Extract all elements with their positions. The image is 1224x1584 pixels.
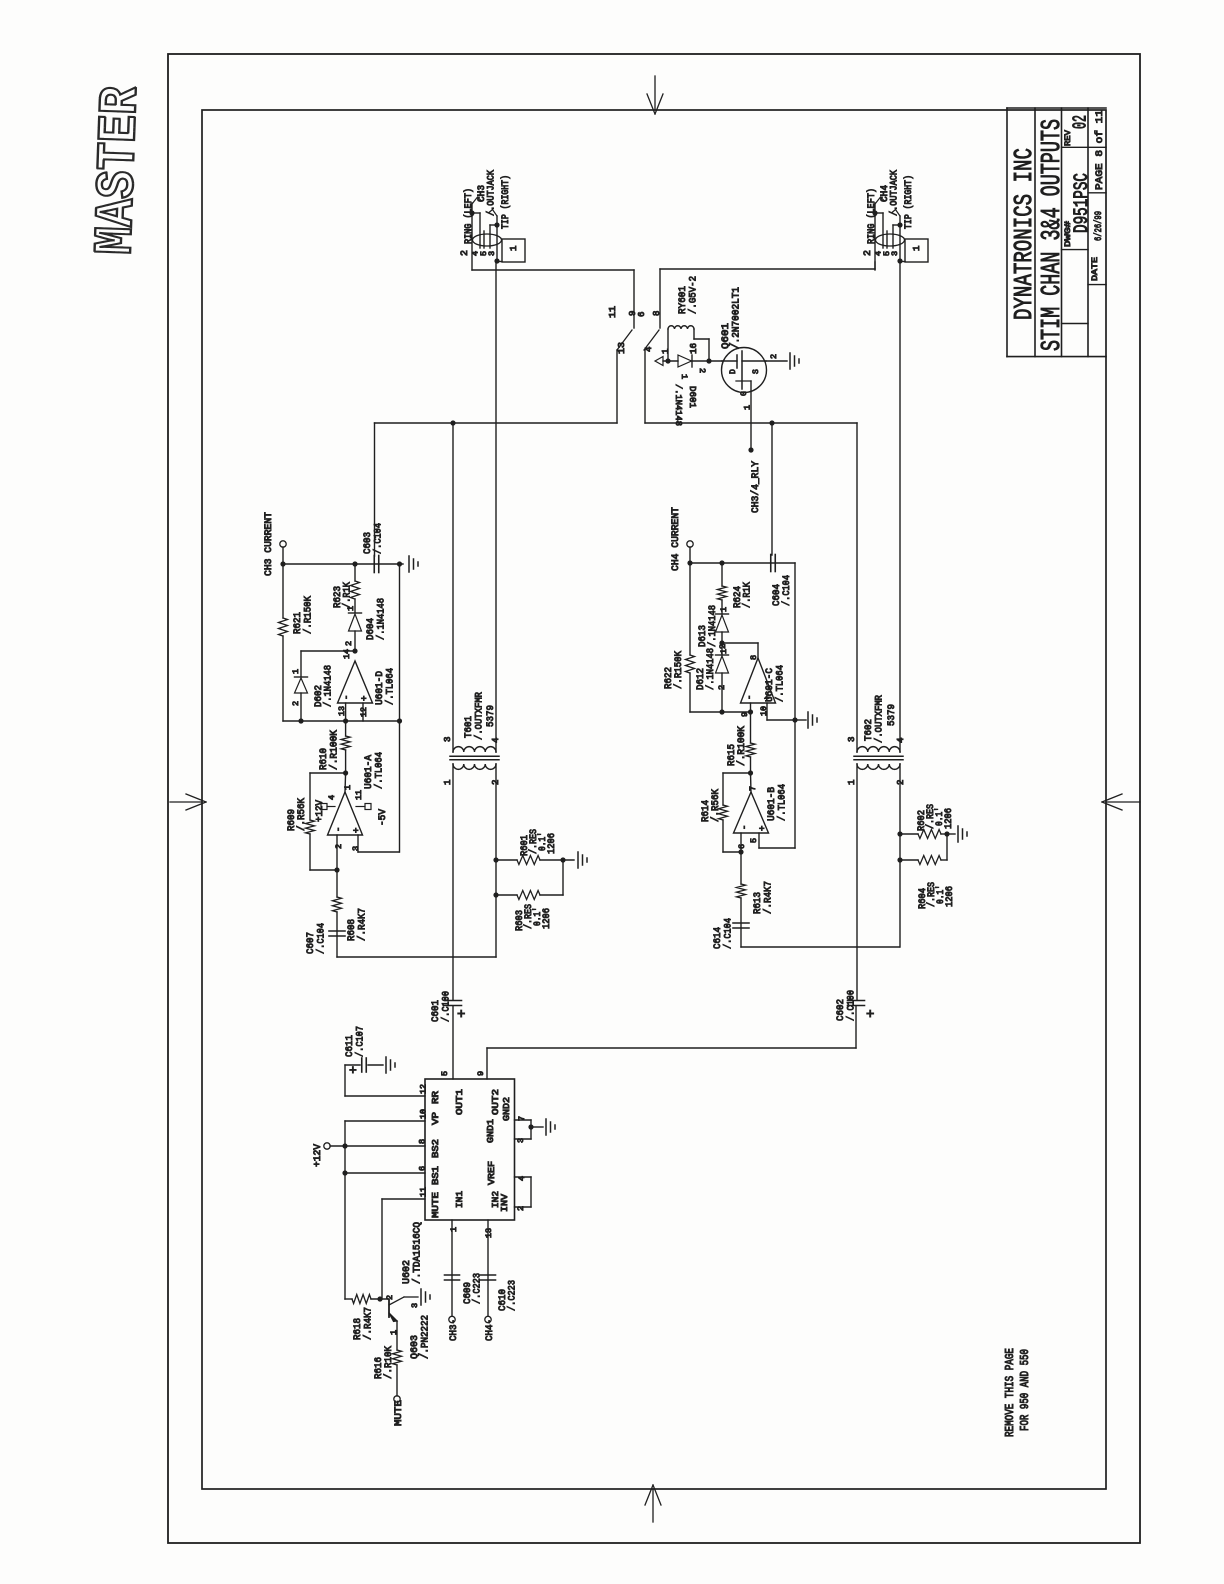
svg-text:1: 1 [449, 1227, 459, 1232]
svg-text:8: 8 [418, 1139, 428, 1144]
svg-text:14: 14 [342, 649, 352, 659]
svg-text:PAGE 8 of 11: PAGE 8 of 11 [1094, 110, 1106, 190]
svg-text:13: 13 [617, 342, 627, 354]
svg-text:REMOVE THIS PAGE: REMOVE THIS PAGE [1003, 1348, 1017, 1437]
svg-text:3: 3 [410, 1303, 420, 1308]
svg-text:/.C104: /.C104 [373, 523, 385, 554]
svg-text:/.R56K: /.R56K [296, 797, 308, 831]
svg-text:5379: 5379 [485, 705, 497, 727]
svg-text:/.1N4148: /.1N4148 [705, 648, 717, 690]
svg-text:GND2: GND2 [501, 1097, 512, 1121]
svg-text:2: 2 [896, 780, 906, 785]
svg-text:+: + [758, 826, 768, 831]
svg-text:/.R100K: /.R100K [736, 725, 748, 766]
svg-text:1206: 1206 [547, 833, 558, 854]
svg-text:-: - [740, 825, 750, 830]
svg-text:/.G5V-2: /.G5V-2 [688, 276, 700, 314]
svg-text:+: + [352, 828, 362, 833]
svg-text:/.C104: /.C104 [723, 918, 735, 949]
svg-text:2: 2 [491, 780, 501, 785]
svg-text:MUTE: MUTE [393, 1400, 405, 1426]
svg-text:3: 3 [443, 737, 453, 742]
svg-text:/.C100: /.C100 [441, 991, 453, 1022]
svg-text:/.TDA1516CQ: /.TDA1516CQ [412, 1222, 424, 1284]
svg-text:OUT1: OUT1 [454, 1089, 465, 1115]
svg-text:12: 12 [359, 707, 369, 717]
svg-text:/.R1K: /.R1K [342, 582, 354, 608]
svg-text:/.1N4148: /.1N4148 [673, 384, 684, 426]
svg-text:-5V: -5V [378, 809, 389, 826]
svg-text:1206: 1206 [945, 886, 956, 907]
svg-text:G: G [740, 391, 749, 396]
svg-text:/.R150K: /.R150K [673, 650, 685, 689]
svg-text:/.R150K: /.R150K [303, 595, 315, 634]
svg-text:/.C223: /.C223 [472, 1273, 484, 1304]
svg-text:/.2N7002LT1: /.2N7002LT1 [731, 287, 743, 349]
svg-text:RING (LEFT): RING (LEFT) [866, 188, 878, 244]
svg-text:/.PN2222: /.PN2222 [420, 1315, 432, 1359]
svg-text:/.OUTJACK: /.OUTJACK [486, 170, 498, 216]
svg-text:8: 8 [652, 311, 662, 316]
svg-text:1: 1 [719, 649, 729, 654]
svg-text:4: 4 [327, 795, 337, 800]
svg-text:5379: 5379 [886, 704, 898, 726]
svg-text:2: 2 [863, 250, 874, 256]
svg-text:/.R4K7: /.R4K7 [357, 908, 369, 941]
svg-text:2: 2 [718, 644, 728, 649]
svg-text:FOR 950 AND 550: FOR 950 AND 550 [1018, 1349, 1032, 1431]
svg-text:11: 11 [419, 1187, 429, 1197]
svg-text:2: 2 [291, 701, 301, 706]
svg-text:11: 11 [608, 306, 618, 318]
svg-text:/.1N4148: /.1N4148 [376, 598, 388, 640]
svg-text:1: 1 [912, 246, 922, 251]
svg-text:/.TL064: /.TL064 [374, 752, 386, 789]
svg-text:/.1N4148: /.1N4148 [707, 605, 719, 647]
svg-text:1: 1 [346, 606, 356, 611]
svg-text:2: 2 [697, 368, 707, 373]
svg-text:8: 8 [749, 655, 759, 660]
svg-text:/.R4K7: /.R4K7 [763, 881, 775, 914]
svg-text:TIP (RIGHT): TIP (RIGHT) [500, 175, 512, 229]
svg-text:-: - [342, 695, 352, 700]
svg-text:CH3-: CH3- [448, 1319, 460, 1341]
svg-text:/.OUTJACK: /.OUTJACK [889, 170, 901, 216]
svg-text:/.C104: /.C104 [316, 923, 328, 954]
svg-text:7: 7 [748, 786, 758, 791]
svg-text:/.C104: /.C104 [781, 575, 793, 606]
svg-text:+12V: +12V [313, 1144, 324, 1167]
svg-text:2: 2 [385, 1295, 395, 1300]
svg-text:/.OUTXFMR: /.OUTXFMR [874, 694, 886, 743]
svg-text:/.1N4148: /.1N4148 [323, 665, 335, 707]
svg-text:6: 6 [418, 1166, 428, 1171]
svg-text:VP: VP [430, 1112, 441, 1125]
svg-text:1: 1 [719, 607, 729, 612]
svg-text:/.C223: /.C223 [507, 1280, 519, 1311]
svg-text:1: 1 [743, 405, 753, 410]
svg-text:CH4 CURRENT: CH4 CURRENT [670, 507, 682, 571]
svg-text:02: 02 [1070, 115, 1092, 129]
svg-text:/.R100K: /.R100K [329, 729, 341, 770]
svg-text:1: 1 [443, 780, 453, 785]
svg-text:6: 6 [737, 844, 747, 849]
svg-text:+: + [457, 1007, 465, 1023]
svg-text:IN2: IN2 [490, 1191, 501, 1208]
svg-text:/.TL064: /.TL064 [385, 668, 397, 705]
svg-text:TIP (RIGHT): TIP (RIGHT) [903, 175, 915, 229]
svg-text:-: - [745, 695, 755, 700]
svg-text:IN1: IN1 [454, 1191, 465, 1208]
svg-text:1: 1 [343, 785, 353, 790]
svg-text:5: 5 [749, 838, 759, 843]
svg-text:16: 16 [689, 343, 699, 354]
svg-text:3: 3 [890, 251, 900, 256]
svg-text:/.R10K: /.R10K [383, 1345, 395, 1379]
svg-text:5: 5 [440, 1071, 450, 1076]
svg-text:MASTER: MASTER [86, 85, 153, 256]
svg-text:/.R1K: /.R1K [742, 582, 754, 608]
svg-text:/.C107: /.C107 [355, 1026, 367, 1057]
svg-text:VREF: VREF [486, 1161, 497, 1185]
svg-text:4: 4 [896, 738, 906, 743]
svg-text:2: 2 [769, 354, 779, 359]
svg-text:4: 4 [491, 738, 501, 743]
svg-text:DATE: DATE [1090, 257, 1100, 281]
svg-text:BS1: BS1 [430, 1166, 441, 1185]
svg-text:MUTE: MUTE [430, 1192, 441, 1218]
svg-text:13: 13 [484, 1228, 494, 1238]
svg-text:2: 2 [717, 685, 727, 690]
svg-text:3: 3 [351, 846, 361, 851]
svg-text:10: 10 [759, 706, 769, 716]
svg-text:CH3/4_RLY: CH3/4_RLY [750, 460, 762, 513]
svg-text:3: 3 [487, 251, 497, 256]
svg-text:D: D [729, 369, 738, 374]
svg-text:-: - [334, 827, 344, 832]
svg-text:6/26/99: 6/26/99 [1093, 211, 1105, 241]
svg-text:4: 4 [644, 347, 654, 352]
svg-text:D951PSC: D951PSC [1071, 173, 1094, 233]
svg-text:12: 12 [419, 1084, 429, 1094]
svg-text:1206: 1206 [542, 908, 553, 929]
svg-text:1: 1 [661, 349, 671, 354]
svg-text:OUT2: OUT2 [490, 1089, 501, 1115]
svg-text:2: 2 [344, 641, 354, 646]
svg-text:13: 13 [337, 706, 347, 716]
svg-text:CH3 CURRENT: CH3 CURRENT [263, 512, 275, 576]
svg-text:/.TL064: /.TL064 [775, 665, 787, 702]
svg-text:1: 1 [679, 374, 689, 379]
svg-text:3: 3 [847, 737, 857, 742]
svg-text:+: + [866, 1007, 874, 1023]
svg-text:1: 1 [389, 1330, 399, 1335]
svg-text:2: 2 [334, 844, 344, 849]
svg-text:GND1: GND1 [485, 1119, 496, 1143]
svg-text:/.R56K: /.R56K [710, 788, 722, 822]
svg-text:1206: 1206 [944, 808, 955, 829]
svg-text:2: 2 [460, 250, 471, 256]
svg-text:DYNATRONICS INC: DYNATRONICS INC [1009, 148, 1039, 320]
svg-text:RING (LEFT): RING (LEFT) [463, 188, 475, 244]
svg-text:6: 6 [637, 312, 647, 317]
svg-text:/.OUTXFMR: /.OUTXFMR [474, 691, 486, 740]
svg-text:REV: REV [1063, 129, 1073, 146]
svg-text:11: 11 [354, 790, 364, 800]
svg-text:D601: D601 [687, 386, 698, 408]
svg-text:1: 1 [847, 780, 857, 785]
svg-text:1: 1 [509, 246, 519, 251]
svg-text:CH4-: CH4- [484, 1319, 496, 1341]
svg-text:+: + [360, 696, 370, 701]
svg-text:/.R4K7: /.R4K7 [363, 1307, 375, 1340]
svg-text:S: S [752, 369, 761, 374]
svg-text:+: + [349, 1063, 357, 1078]
svg-text:10: 10 [419, 1109, 429, 1119]
svg-text:9: 9 [476, 1071, 486, 1076]
svg-text:1: 1 [291, 669, 301, 674]
svg-text:RR: RR [430, 1091, 441, 1104]
svg-text:BS2: BS2 [430, 1139, 441, 1158]
svg-text:/.TL064: /.TL064 [777, 784, 789, 821]
